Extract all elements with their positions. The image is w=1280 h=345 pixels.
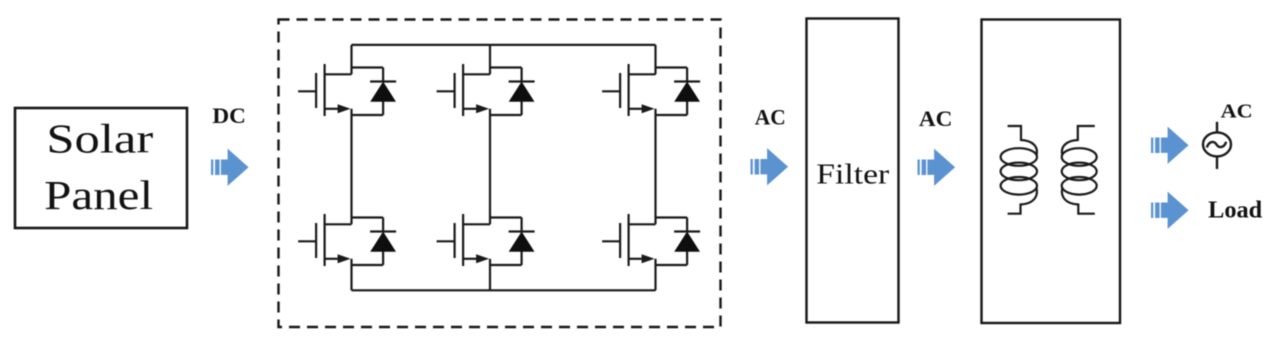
arrow AC flow 1 — [751, 148, 789, 185]
wire Q6 diode branch — [656, 218, 688, 266]
wire top DC rail — [352, 44, 656, 46]
transistor Q3 (phase C high side) — [602, 64, 655, 116]
transistor Q5 (phase B low side) — [437, 214, 490, 266]
wire Q5 diode branch — [490, 218, 522, 266]
arrow to AC source — [1151, 127, 1189, 164]
wire Q6 source to bottom rail — [654, 259, 656, 291]
wire Q4 diode branch — [352, 218, 384, 266]
wire Q3 diode branch — [656, 68, 688, 116]
arrow AC flow 2 — [918, 149, 956, 186]
svg-text:AC: AC — [919, 106, 953, 131]
diode D2 — [509, 68, 535, 116]
svg-text:Solar: Solar — [46, 116, 153, 162]
inverter dashed enclosure — [279, 20, 721, 328]
wire Q5 source to bottom rail — [489, 259, 491, 291]
arrow DC flow — [211, 149, 249, 186]
inductor L1 primary winding — [1001, 126, 1037, 214]
svg-text:DC: DC — [212, 103, 246, 128]
wire Q2 diode branch — [490, 68, 522, 116]
diode D4 — [370, 218, 396, 266]
transistor Q4 (phase A low side) — [298, 214, 351, 266]
wire Q1 diode branch — [352, 68, 384, 116]
filter block — [807, 19, 899, 323]
transistor Q6 (phase C low side) — [602, 214, 655, 266]
wire Q3 drain to top rail — [654, 45, 656, 74]
wire phase leg C — [654, 109, 656, 225]
transformer block — [982, 20, 1121, 324]
svg-text:Panel: Panel — [44, 172, 153, 218]
wire phase leg B — [489, 109, 491, 225]
wire Q4 source to bottom rail — [350, 259, 352, 291]
svg-text:Load: Load — [1208, 197, 1263, 223]
diode D3 — [674, 68, 700, 116]
svg-text:AC: AC — [755, 105, 786, 130]
solar panel block — [15, 108, 187, 228]
transistor Q1 (phase A high side) — [298, 64, 351, 116]
diode D6 — [674, 218, 700, 266]
wire bottom DC rail — [352, 289, 656, 291]
svg-text:Filter: Filter — [816, 158, 889, 190]
diode D1 — [370, 68, 396, 116]
arrow to load — [1151, 192, 1189, 229]
wire Q1 drain to top rail — [350, 45, 352, 74]
wire phase leg A — [350, 109, 352, 225]
svg-text:AC: AC — [1221, 100, 1253, 122]
transistor Q2 (phase B high side) — [437, 64, 490, 116]
wire Q2 drain to top rail — [489, 45, 491, 74]
inductor L2 secondary winding — [1062, 126, 1097, 214]
diode D5 — [509, 218, 535, 266]
AC source symbol — [1203, 122, 1231, 169]
